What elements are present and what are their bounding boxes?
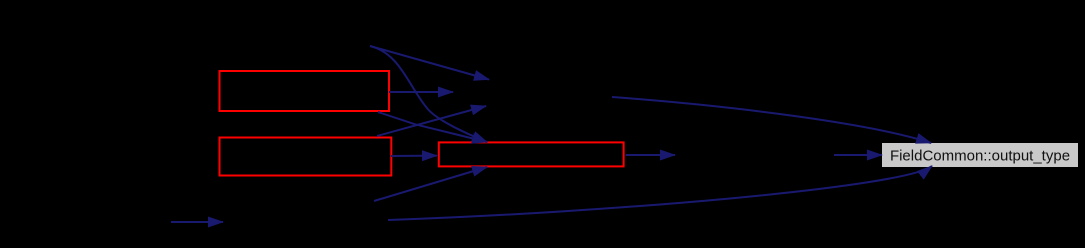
edge H to D (horizontal arrow into D left) [834, 154, 882, 156]
edge T to G (straight arrow) [370, 46, 489, 80]
edge B to G (ascending arrow) [377, 106, 486, 136]
node B (red box, hidden label) [220, 138, 392, 176]
edge B to C (horizontal arrow) [391, 155, 437, 157]
edge C to H (horizontal arrow right of C) [626, 154, 676, 156]
node A (red box, hidden label) [220, 71, 390, 111]
edge A to C (diagonal arrow onto C top) [378, 112, 487, 142]
edge G to D (long curve onto D top) [612, 97, 931, 143]
edge M to N (small horizontal arrow bottom-left) [171, 221, 223, 223]
edge N to D (long bottom curve onto D bottom) [388, 166, 932, 220]
edge T to C (s-curve arrow onto C top) [370, 46, 487, 142]
svg-text:FieldCommon::output_type: FieldCommon::output_type [890, 148, 1070, 165]
node D FieldCommon::output_type (gray node) [882, 143, 1078, 167]
edge A to E (horizontal arrow) [389, 91, 453, 93]
node C (red box, hidden label) [439, 142, 624, 166]
edge N to C (ascending arrow onto C bottom) [374, 167, 487, 201]
